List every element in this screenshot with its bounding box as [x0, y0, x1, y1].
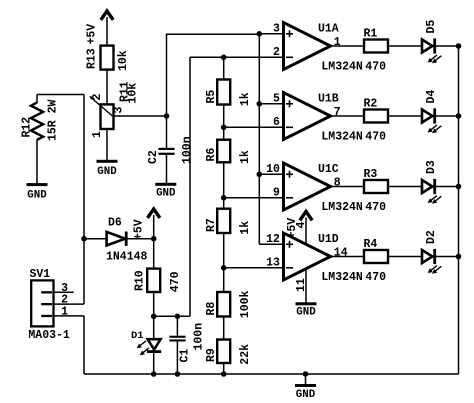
wire D4 to LED bus: [436, 115, 459, 117]
svg-text:11: 11: [295, 278, 308, 292]
wire C1 bottom to ground bus: [176, 341, 178, 374]
resistor R13 10k: [86, 46, 131, 71]
power +5V arrow (top left): [86, 11, 113, 45]
power +5V arrow (U1D pin 4): [286, 212, 311, 239]
svg-text:10k: 10k: [127, 83, 140, 104]
svg-text:7: 7: [334, 106, 341, 119]
node bus / pin 3: [257, 31, 263, 37]
LED D2: [422, 230, 441, 274]
node divider / pin 9: [221, 195, 227, 201]
resistor R3 470: [364, 168, 389, 214]
LED D3: [422, 160, 441, 204]
svg-text:R13: R13: [86, 48, 99, 69]
ground (R12): [27, 183, 48, 201]
LED D4: [422, 90, 441, 134]
wire node to R10: [153, 239, 155, 269]
wire -input pin 9 (U1C): [224, 197, 284, 199]
resistor R5 1k: [205, 80, 252, 107]
wire R12 top to pot corner: [36, 95, 38, 104]
svg-text:2: 2: [273, 46, 280, 59]
node bus / pin 5: [257, 101, 263, 107]
svg-text:R8: R8: [205, 302, 218, 316]
svg-text:GND: GND: [27, 190, 47, 202]
ground (U1D pin 11): [295, 278, 317, 318]
svg-text:3: 3: [113, 107, 126, 114]
svg-text:15R 2W: 15R 2W: [47, 99, 60, 141]
svg-text:470: 470: [365, 131, 386, 144]
svg-text:1N4148: 1N4148: [106, 251, 148, 264]
wire +input pin 10 (U1C): [259, 173, 283, 175]
node bus / pin 10: [257, 172, 263, 178]
svg-text:R10: R10: [134, 270, 147, 291]
svg-text:1k: 1k: [239, 221, 252, 235]
svg-text:U1D: U1D: [318, 233, 339, 246]
wire to D6: [84, 238, 107, 240]
svg-text:R3: R3: [364, 168, 378, 181]
node D6 anode junction: [81, 236, 87, 242]
svg-text:13: 13: [266, 257, 280, 270]
wire node to C2: [166, 116, 168, 149]
wire R13 to R11 pin 2: [106, 70, 108, 105]
svg-text:GND: GND: [97, 166, 117, 178]
svg-text:1: 1: [91, 131, 104, 138]
wire SV1 pin 1 to ground bus: [55, 315, 85, 317]
svg-text:D4: D4: [425, 90, 438, 104]
wire R10 to D1 node: [153, 292, 155, 316]
svg-text:470: 470: [365, 61, 386, 74]
wire divider chain x=223.7: [223, 57, 225, 80]
svg-text:10k: 10k: [117, 50, 130, 71]
svg-text:R4: R4: [364, 238, 378, 251]
node D6/R10/+5V junction: [151, 236, 157, 242]
wire R3 to D3: [388, 186, 422, 188]
power +5V arrow (at D6): [133, 209, 159, 240]
svg-text:D1: D1: [131, 330, 144, 342]
svg-text:SV1: SV1: [30, 268, 51, 281]
wire R11 wiper to node: [113, 115, 167, 117]
wire +input pin 3 (U1A): [259, 33, 283, 35]
svg-text:100n: 100n: [193, 323, 206, 351]
node C1 on bus: [175, 371, 181, 377]
svg-text:8: 8: [334, 176, 341, 189]
node ground bus / GND stem: [303, 371, 309, 377]
svg-text:470: 470: [365, 201, 386, 214]
wire SV1 pin 3 stub: [55, 291, 74, 293]
resistor R8 100k: [205, 290, 252, 318]
svg-text:R6: R6: [205, 148, 218, 162]
svg-text:R7: R7: [205, 218, 218, 232]
resistor R6 1k: [205, 140, 252, 164]
svg-text:10: 10: [266, 163, 280, 176]
svg-text:100n: 100n: [181, 136, 194, 164]
node divider / pin 6: [221, 125, 227, 131]
resistor R9 22k: [205, 340, 252, 365]
svg-text:R2: R2: [364, 97, 378, 110]
svg-text:9: 9: [273, 187, 280, 200]
wire R4 to D2: [388, 256, 422, 258]
wire -input pin 6 (U1B): [224, 126, 284, 128]
svg-text:R12: R12: [21, 117, 34, 138]
wire wiper node up and right to pin 3 bus: [166, 34, 168, 117]
wire C2 to GND: [166, 155, 168, 183]
svg-text:D3: D3: [425, 160, 438, 174]
svg-text:GND: GND: [296, 307, 316, 319]
ground (main bus): [295, 374, 316, 401]
LED D5: [422, 20, 441, 64]
svg-text:6: 6: [273, 116, 280, 129]
signal bus wire x=259.3: [258, 34, 260, 244]
wire D1 cathode to ground bus: [153, 353, 155, 374]
node divider / pin 13: [221, 265, 227, 271]
wire R2 to D4: [388, 115, 422, 117]
svg-text:+5V: +5V: [133, 219, 146, 240]
svg-text:D5: D5: [425, 20, 438, 34]
svg-text:LM324N: LM324N: [321, 201, 363, 214]
svg-text:5: 5: [273, 93, 280, 106]
wire SV1 pin 2 to x84 line: [55, 303, 85, 305]
svg-text:U1C: U1C: [318, 163, 339, 176]
wire output pin 7 to R2: [331, 115, 365, 117]
node R10/D1/C1 junction: [151, 314, 157, 320]
op-amp U1C LM324N: [266, 163, 363, 214]
wire C1 top: [176, 316, 178, 336]
node ground bus / R9: [221, 371, 227, 377]
svg-text:LM324N: LM324N: [321, 131, 363, 144]
svg-text:14: 14: [334, 246, 348, 259]
wire +5V to node: [153, 215, 155, 239]
svg-text:+5V: +5V: [86, 24, 99, 45]
svg-text:D2: D2: [425, 230, 438, 244]
wire D3 to LED bus: [436, 186, 459, 188]
svg-text:U1B: U1B: [318, 93, 339, 106]
svg-text:MA03-1: MA03-1: [28, 329, 70, 342]
wire R1 to D5: [388, 45, 422, 47]
capacitor C1 100n: [169, 323, 205, 363]
node LED bus row 2: [456, 113, 462, 119]
LED bus wire (right): [458, 46, 460, 374]
wire R11 pin1 to GND: [106, 129, 108, 160]
svg-text:R1: R1: [364, 27, 378, 40]
node LED bus row 3: [456, 184, 462, 190]
svg-text:12: 12: [266, 233, 280, 246]
resistor R7 1k: [205, 209, 252, 235]
svg-text:470: 470: [169, 271, 182, 292]
svg-text:3: 3: [273, 23, 280, 36]
diode D6 1N4148: [106, 217, 148, 264]
connector SV1 MA03-1: [28, 268, 70, 342]
wire +5V to R13: [106, 17, 108, 46]
svg-text:C2: C2: [147, 150, 160, 164]
wire +input pin 5 (U1B): [259, 103, 283, 105]
wire node to C1 and corner up to pin 2 line: [154, 315, 190, 317]
wire D1 anode: [153, 316, 155, 339]
svg-text:1: 1: [334, 36, 341, 49]
resistor R1 470: [364, 27, 389, 73]
wire R12 bottom to GND: [36, 140, 38, 184]
wire output pin 1 to R1: [331, 45, 365, 47]
wire -input pin 13 (U1D): [224, 267, 284, 269]
wire D2 to LED bus: [436, 256, 459, 258]
op-amp U1D LM324N: [266, 233, 363, 284]
potentiometer R11 10k: [89, 81, 139, 138]
node divider / pin 2: [221, 55, 227, 61]
svg-text:LM324N: LM324N: [321, 271, 363, 284]
node C1 top junction: [175, 314, 181, 320]
svg-text:100k: 100k: [239, 290, 252, 318]
svg-text:470: 470: [365, 271, 386, 284]
wire output pin 14 to R4: [331, 256, 365, 258]
resistor R2 470: [364, 97, 389, 143]
svg-text:R9: R9: [205, 348, 218, 362]
wire pin 11: [305, 262, 307, 303]
resistor R12 15R 2W: [21, 99, 60, 141]
wire pin 4: [305, 218, 307, 251]
svg-text:GND: GND: [156, 188, 176, 200]
svg-text:1k: 1k: [239, 92, 252, 106]
op-amp U1B LM324N: [273, 93, 363, 144]
svg-text:LM324N: LM324N: [321, 61, 363, 74]
wire D5 to LED bus: [436, 45, 459, 47]
svg-text:22k: 22k: [239, 344, 252, 365]
node: wiper junction: [164, 113, 170, 119]
svg-text:2: 2: [91, 94, 104, 101]
svg-text:R5: R5: [205, 90, 218, 104]
node D1 on bus: [151, 371, 157, 377]
wire +input pin 12 (U1D): [259, 243, 283, 245]
wire -input pin 2 (U1A): [190, 56, 284, 58]
node LED bus row 4: [456, 254, 462, 260]
op-amp U1A LM324N: [273, 23, 363, 74]
svg-text:D6: D6: [108, 217, 122, 230]
resistor R4 470: [364, 238, 389, 284]
svg-text:GND: GND: [296, 389, 316, 401]
ground (R11): [97, 160, 118, 178]
capacitor C2 100n: [147, 136, 194, 164]
svg-text:C1: C1: [179, 349, 192, 363]
wire vertical x84: pot corner to D6 anode to SV1 pin 2: [83, 95, 85, 239]
ground (C2): [155, 183, 176, 200]
node LED bus row 1: [456, 43, 462, 49]
ground bus wire (bottom): [84, 373, 459, 375]
wire D6 cathode to +5V node: [127, 238, 154, 240]
resistor R10 470: [134, 269, 182, 293]
LED D1: [131, 330, 161, 355]
wire output pin 8 to R3: [331, 186, 365, 188]
svg-text:U1A: U1A: [318, 23, 339, 36]
svg-text:1k: 1k: [239, 150, 252, 164]
